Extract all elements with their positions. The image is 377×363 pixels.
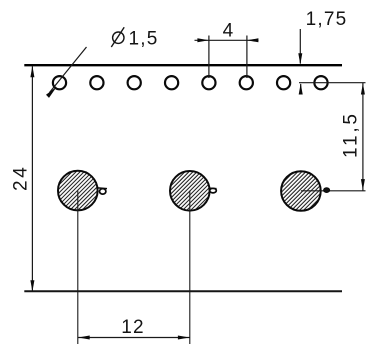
dimension 24 line (31, 66, 33, 291)
dimension 4 arrow right (outside, pointing left) (247, 38, 259, 42)
svg-text:24: 24 (11, 165, 32, 191)
dimension 12 arrow right (178, 336, 190, 340)
pocket P1 hatched circle (58, 171, 98, 211)
sprocket hole 6 (240, 76, 253, 89)
dimension 11,5 arrow up (361, 83, 365, 94)
sprocket hole centre extension line (299, 82, 366, 84)
dimension 4 arrow left (outside, pointing right) (197, 38, 209, 42)
hole diameter label symbol (111, 27, 124, 47)
svg-text:12: 12 (121, 317, 145, 338)
dimension 4 extension line right (246, 36, 248, 79)
dimension 24 arrow down (30, 280, 34, 292)
sprocket hole 5 (202, 76, 215, 89)
pocket P3 centre line to right (301, 190, 366, 192)
hole diameter leader arrowhead (46, 87, 57, 98)
dimension 12 line (78, 337, 190, 339)
hole diameter leader line (50, 47, 87, 93)
svg-text:1,75: 1,75 (306, 9, 348, 30)
dimension 1,75 arrow up to hole centre line (300, 84, 302, 94)
pocket P1 lead nub (98, 188, 108, 194)
pocket P2 centre line down (189, 191, 191, 344)
dimension 1,75 arrow down to tape edge (299, 29, 301, 64)
pocket P3 hatched circle (281, 171, 321, 211)
sprocket hole 2 (90, 76, 103, 89)
sprocket hole 4 (165, 76, 178, 89)
tape bottom edge line (24, 290, 342, 292)
sprocket hole 3 (128, 76, 141, 89)
pocket P3 lead nub (324, 188, 330, 193)
dimension 4 extension line left (208, 36, 210, 79)
pocket P2 hatched circle (170, 171, 210, 211)
sprocket hole 7 (277, 76, 290, 89)
dimension 11,5 arrow down (361, 179, 365, 190)
pocket P1 centre line down (77, 191, 79, 344)
dimension 11,5 line (362, 83, 364, 191)
tape top edge line (24, 64, 342, 66)
dimension 12 arrow left (78, 336, 90, 340)
dimension 4 line (195, 39, 259, 41)
dimension 24 arrow up (30, 66, 34, 78)
sprocket hole 8 (314, 76, 327, 89)
pocket P2 lead nub (209, 188, 217, 193)
svg-text:4: 4 (223, 20, 235, 41)
sprocket hole 1 (53, 76, 66, 89)
svg-text:1,5: 1,5 (129, 28, 159, 49)
svg-text:11,5: 11,5 (341, 111, 362, 158)
